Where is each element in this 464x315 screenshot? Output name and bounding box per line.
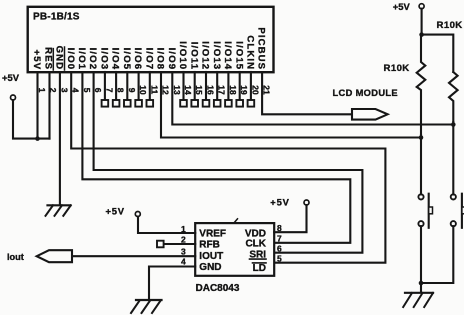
DAC pin number 3 xyxy=(181,247,186,257)
svg-text:LCD MODULE: LCD MODULE xyxy=(333,88,398,98)
wire GND pin4 to ground xyxy=(149,267,195,300)
wire VREF pin1 to +5V xyxy=(138,217,195,234)
pin 11 label I/O7 xyxy=(143,48,154,71)
pin 21 label PICBUS xyxy=(256,27,267,70)
pushbutton switch S1 (left) xyxy=(418,194,432,228)
wire to right resistor top xyxy=(422,35,454,72)
DAC pin number 8 xyxy=(277,223,282,233)
resistor R10K (right) xyxy=(437,20,463,122)
svg-text:I/O12: I/O12 xyxy=(200,41,211,70)
svg-text:+5V: +5V xyxy=(106,206,125,217)
pin 2 label RES (active low) xyxy=(42,47,53,70)
svg-text:I/O2: I/O2 xyxy=(87,48,98,71)
unused pin 14 terminal xyxy=(180,72,187,107)
pin number 4 xyxy=(71,88,81,93)
svg-text:+5V: +5V xyxy=(31,50,42,71)
wire pin4 I/O0 to DAC LD xyxy=(71,72,385,263)
pin 9 label I/O5 xyxy=(121,48,132,71)
svg-text:I/O10: I/O10 xyxy=(177,41,188,70)
pin 8 label I/O4 xyxy=(110,48,121,71)
wire S2 bottom to ground node xyxy=(421,226,453,283)
pin 4 label I/O0 xyxy=(65,48,76,71)
wire pin6 I/O2 to DAC SRI xyxy=(94,72,363,253)
junction node left rail / I-O8 xyxy=(419,135,424,140)
DAC pin number 7 xyxy=(277,234,282,244)
pin number 6 xyxy=(93,88,103,93)
+5V terminal top-right xyxy=(393,1,424,12)
wire pin3 GND down xyxy=(59,72,61,205)
unused pin 11 terminal xyxy=(147,72,154,107)
svg-text:RES: RES xyxy=(42,47,53,70)
RFB open terminal square xyxy=(157,241,164,248)
unused pin 18 terminal xyxy=(225,72,232,107)
svg-text:IOUT: IOUT xyxy=(199,251,223,262)
svg-text:I/O11: I/O11 xyxy=(188,42,199,70)
svg-text:LD: LD xyxy=(253,263,266,274)
DAC pin number 6 xyxy=(277,244,282,254)
svg-text:I/O5: I/O5 xyxy=(121,48,132,71)
resistor R10K (left) xyxy=(384,35,426,135)
IC U1 PB-1B/1S body xyxy=(28,7,274,72)
pin number 7 xyxy=(104,88,114,93)
pin 16 label I/O12 xyxy=(200,41,211,70)
wire left rail to switch xyxy=(420,135,422,194)
pin number 15 xyxy=(194,85,204,95)
pin number 18 xyxy=(228,85,238,95)
svg-text:I/O14: I/O14 xyxy=(222,41,233,70)
unused pin 10 terminal xyxy=(135,72,142,107)
wire RFB pin2 stub xyxy=(164,243,195,245)
wire pin1 +5V to supply rail xyxy=(36,72,38,139)
pin 18 label I/O14 xyxy=(222,41,233,70)
pin 5 label I/O1 xyxy=(76,48,87,71)
junction node resistor tops xyxy=(419,32,424,37)
pin number 1 xyxy=(37,88,47,93)
pin number 12 xyxy=(161,85,171,95)
unused pin 17 terminal xyxy=(214,72,221,107)
svg-text:I/O7: I/O7 xyxy=(143,48,154,71)
wire pin2 RES to supply rail xyxy=(48,72,50,139)
svg-text:PB-1B/1S: PB-1B/1S xyxy=(33,12,80,23)
pin number 2 xyxy=(48,88,58,93)
+5V terminal top-left xyxy=(2,72,20,100)
pin number 9 xyxy=(127,88,137,93)
svg-text:7: 7 xyxy=(277,234,282,244)
+5V terminal at VDD xyxy=(270,197,309,208)
wire right rail to switch xyxy=(452,122,454,194)
wire pin12 I/O8 to left pullup rail xyxy=(161,72,421,138)
pin 13 label I/O9 xyxy=(166,48,177,71)
svg-text:4: 4 xyxy=(181,257,186,267)
DAC pin number 5 xyxy=(277,254,282,264)
pin 7 label I/O3 xyxy=(99,48,110,71)
svg-text:Iout: Iout xyxy=(7,252,24,262)
svg-text:I/O1: I/O1 xyxy=(76,48,87,71)
LCD MODULE connector arrow xyxy=(333,88,398,119)
svg-text:R10K: R10K xyxy=(384,63,410,74)
pin number 19 xyxy=(239,85,249,95)
svg-text:GND: GND xyxy=(54,46,65,71)
svg-text:5: 5 xyxy=(277,254,282,264)
svg-text:I/O9: I/O9 xyxy=(166,48,177,71)
Iout connector arrow xyxy=(7,250,72,262)
svg-text:R10K: R10K xyxy=(437,20,463,31)
svg-text:GND: GND xyxy=(199,262,221,273)
svg-text:I/O8: I/O8 xyxy=(155,48,166,71)
svg-text:I/O6: I/O6 xyxy=(132,48,143,71)
junction node switch ground xyxy=(419,281,424,286)
svg-text:I/O0: I/O0 xyxy=(65,48,76,71)
unused pin 15 terminal xyxy=(191,72,198,107)
svg-text:I/O13: I/O13 xyxy=(211,41,222,70)
wire S1 bottom to ground xyxy=(420,226,422,292)
svg-text:+5V: +5V xyxy=(393,1,411,12)
pin number 16 xyxy=(206,85,216,95)
svg-text:I/O4: I/O4 xyxy=(110,48,121,71)
pin number 11 xyxy=(149,85,159,94)
unused pin 9 terminal xyxy=(124,72,131,107)
wire VDD pin8 to +5V xyxy=(274,205,306,232)
wire pin21 PICBUS to LCD module xyxy=(262,72,352,114)
pin number 10 xyxy=(138,85,148,95)
svg-text:+5V: +5V xyxy=(2,72,20,83)
pin number 20 xyxy=(250,85,260,95)
ground (chassis) below DAC xyxy=(131,300,162,313)
wire pin5 I/O1 to DAC CLK xyxy=(82,72,350,243)
svg-text:VREF: VREF xyxy=(199,229,226,240)
pin 14 label I/O10 xyxy=(177,41,188,70)
pin number 21 xyxy=(262,85,272,95)
pin number 3 xyxy=(59,88,69,93)
svg-text:I/O15: I/O15 xyxy=(233,41,244,70)
pin number 5 xyxy=(82,88,92,93)
pin 15 label I/O11 xyxy=(188,42,199,70)
pin number 13 xyxy=(172,85,182,95)
pin 1 label +5V xyxy=(31,50,42,71)
svg-text:3: 3 xyxy=(181,247,186,257)
pin 12 label I/O8 xyxy=(155,48,166,71)
svg-text:PICBUS: PICBUS xyxy=(256,27,267,70)
pin 20 label CLKIN xyxy=(245,35,256,70)
wire +5V terminal to pins 1,2 xyxy=(13,100,50,139)
pin number 14 xyxy=(183,85,193,95)
pin 3 label GND (active low bar) xyxy=(54,46,65,71)
+5V terminal at VREF xyxy=(106,206,141,217)
svg-text:+5V: +5V xyxy=(270,197,289,208)
unused pin 7 terminal xyxy=(102,72,109,107)
pin number 17 xyxy=(217,85,227,95)
ground (chassis) at pin 3 xyxy=(46,205,71,216)
svg-text:CLKIN: CLKIN xyxy=(245,35,256,70)
unused pin 19 terminal xyxy=(236,72,243,107)
pin 6 label I/O2 xyxy=(87,48,98,71)
wire pin13 I/O9 to right pullup rail xyxy=(172,72,453,125)
svg-text:I/O3: I/O3 xyxy=(99,48,110,71)
DAC pin number 4 xyxy=(181,257,186,267)
DAC pin number 2 xyxy=(181,235,186,245)
wire IOUT pin3 to Iout arrow xyxy=(72,255,195,257)
unused pin 8 terminal xyxy=(113,72,120,107)
svg-text:CLK: CLK xyxy=(245,239,266,250)
svg-text:6: 6 xyxy=(277,244,282,254)
junction node pin1/+5V xyxy=(35,136,40,141)
pin 10 label I/O6 xyxy=(132,48,143,71)
svg-text:DAC8043: DAC8043 xyxy=(196,283,240,294)
pin 17 label I/O13 xyxy=(211,41,222,70)
svg-text:RFB: RFB xyxy=(199,240,220,251)
wire +5V down to junction xyxy=(421,9,423,35)
pushbutton switch S2 (right) xyxy=(451,194,464,228)
IC U2 DAC8043 body xyxy=(195,219,274,294)
pin number 8 xyxy=(116,88,126,93)
junction node right rail / I-O9 xyxy=(451,122,456,127)
DAC pin number 1 xyxy=(181,224,186,234)
unused pin 20 terminal xyxy=(248,72,255,107)
unused pin 16 terminal xyxy=(203,72,210,107)
ground (chassis) below switches xyxy=(403,293,433,307)
pin 19 label I/O15 xyxy=(233,41,244,70)
